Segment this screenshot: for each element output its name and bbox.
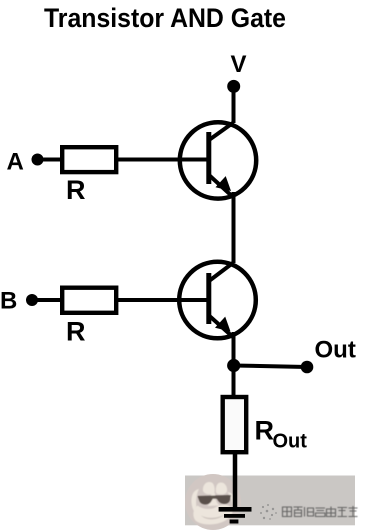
svg-text:V: V [231,51,247,78]
svg-text:Out: Out [315,337,356,364]
svg-text:B: B [0,288,17,315]
svg-text:Transistor AND Gate: Transistor AND Gate [44,3,286,33]
svg-text:Out: Out [273,431,308,453]
svg-text:R: R [255,416,275,446]
svg-text:A: A [7,149,24,176]
svg-text:R: R [66,175,86,205]
svg-text:R: R [66,317,86,347]
